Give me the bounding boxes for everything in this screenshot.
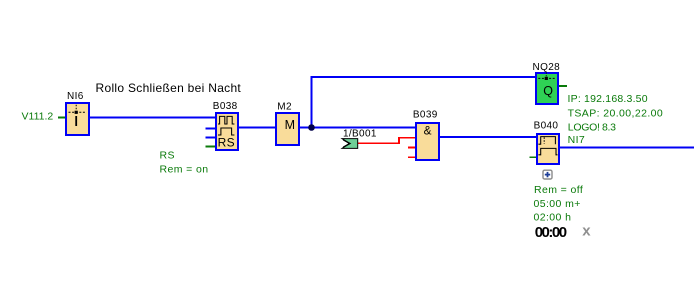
- latching relay B038 block body: [215, 112, 239, 151]
- svg-text:V111.2: V111.2: [22, 110, 54, 122]
- on-delay timer B040 block body: [536, 133, 560, 165]
- svg-text:RS: RS: [218, 136, 235, 150]
- svg-text:B040: B040: [534, 121, 559, 132]
- node junction dot after M2: [308, 124, 315, 131]
- wire B038 open input stub 3: [206, 137, 217, 139]
- svg-text:TSAP: 20.00,22.00: TSAP: 20.00,22.00: [568, 107, 664, 119]
- svg-text:M: M: [285, 118, 295, 132]
- svg-text:IP: 192.168.3.50: IP: 192.168.3.50: [568, 93, 648, 105]
- wire B040 parameter stub green: [530, 156, 538, 158]
- svg-text:B038: B038: [213, 101, 238, 112]
- flag M2 block body: [275, 112, 300, 146]
- svg-text:02:00 h: 02:00 h: [534, 211, 572, 223]
- svg-text:M2: M2: [277, 102, 292, 113]
- B038 icon single pulse: [218, 128, 234, 135]
- wire B039 open input stub 3 red: [408, 146, 416, 148]
- wire vertical riser from junction to top run: [311, 77, 313, 128]
- network input NI6 block body: [65, 102, 90, 136]
- svg-text:NI7: NI7: [568, 134, 586, 146]
- wire NQ28 output stub green: [559, 85, 567, 87]
- svg-text:1/B001: 1/B001: [343, 129, 377, 140]
- svg-text:Rollo Schließen bei Nacht: Rollo Schließen bei Nacht: [96, 81, 242, 95]
- wire B038 parameter stub green: [206, 146, 217, 148]
- svg-text:LOGO!: LOGO!: [568, 121, 600, 133]
- svg-text:00:00: 00:00: [535, 224, 567, 241]
- svg-text:8.3: 8.3: [602, 121, 616, 133]
- svg-text:Q: Q: [543, 84, 553, 98]
- NQ28 internal symbol cross: [538, 72, 556, 78]
- B040 icon input pulse with dashed edge: [538, 137, 557, 155]
- reference flag 1/B001: [342, 139, 358, 149]
- wire B039 open input stub 4 red: [408, 156, 416, 158]
- svg-text:NQ28: NQ28: [533, 62, 561, 73]
- expand plus box under B040: [543, 170, 552, 179]
- AND gate B039 block body: [415, 122, 440, 161]
- wire B040 output to right edge NI7 net: [559, 147, 694, 149]
- svg-text:Rem = on: Rem = on: [160, 163, 209, 175]
- svg-text:NI6: NI6: [67, 91, 84, 102]
- NI6 internal symbol cross and I: [69, 105, 87, 126]
- B038 icon double pulse: [218, 116, 234, 124]
- svg-text:x: x: [582, 223, 591, 240]
- wire red from 1/B001 to B039 input 2: [358, 138, 417, 144]
- wire top run to NQ28 input: [311, 76, 538, 78]
- svg-text:&: &: [424, 124, 432, 138]
- wire M2 output to B039 input 1: [299, 127, 416, 129]
- wire B038 open input stub R: [206, 128, 217, 130]
- wire NI6 output to B038 input S: [89, 117, 216, 119]
- svg-text:05:00 m+: 05:00 m+: [534, 198, 581, 210]
- network output NQ28 block body: [535, 72, 559, 105]
- wire B039 output to B040: [439, 136, 538, 138]
- svg-text:RS: RS: [160, 149, 175, 161]
- wire B038 output to M2: [238, 127, 277, 129]
- svg-text:B039: B039: [413, 110, 438, 121]
- wire V111.2 stub to NI6: [58, 117, 66, 119]
- svg-text:Rem = off: Rem = off: [534, 184, 583, 196]
